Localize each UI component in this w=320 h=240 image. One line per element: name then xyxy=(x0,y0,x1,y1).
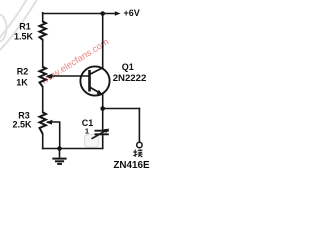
svg-text:2.5K: 2.5K xyxy=(12,119,32,129)
svg-text:1K: 1K xyxy=(16,78,28,88)
svg-text:1: 1 xyxy=(85,127,89,136)
svg-text:ZN416E: ZN416E xyxy=(113,160,150,171)
svg-text:R1: R1 xyxy=(19,21,31,31)
svg-text:www.elecfans.com: www.elecfans.com xyxy=(38,36,111,87)
svg-text:+6V: +6V xyxy=(124,8,140,18)
svg-text:Q1: Q1 xyxy=(122,62,134,72)
svg-text:R2: R2 xyxy=(17,66,29,76)
svg-text:2N2222: 2N2222 xyxy=(113,73,147,84)
svg-text:1.5K: 1.5K xyxy=(14,32,34,42)
